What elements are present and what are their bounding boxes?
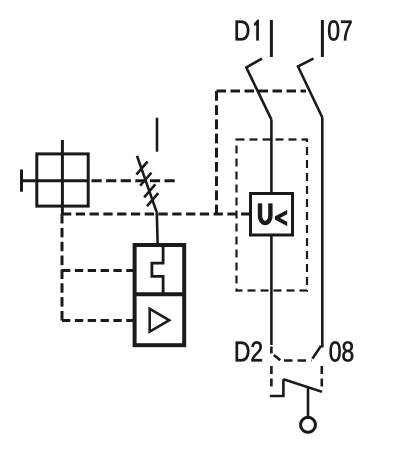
signalling terminal circle — [301, 417, 316, 432]
terminal label 07 — [328, 20, 351, 40]
wire pole D1 to U< box — [270, 120, 273, 195]
dashed enclosure around undervoltage release — [237, 140, 308, 291]
main contact pole 07 (breaker switch blade) — [298, 59, 322, 118]
terminal label D2 — [236, 341, 262, 361]
wire blade to signalling terminal — [307, 388, 310, 418]
overload step element — [152, 246, 163, 293]
terminal label D1 — [236, 20, 259, 40]
latch hatch tick 4 — [147, 193, 158, 206]
auxiliary changeover contact blade — [283, 379, 322, 392]
undervoltage release U1 box — [251, 194, 293, 236]
trip unit box (overload + amplifier) — [135, 245, 185, 345]
dashed linkage diagonal left — [274, 355, 281, 360]
wire latch to trip unit — [156, 213, 159, 247]
dashed linkage diagonal right — [312, 346, 321, 359]
dashed mechanical link left (below D2) — [270, 347, 273, 354]
latch lever stub — [156, 118, 159, 152]
latch hatch tick 1 — [136, 162, 147, 175]
trip linkage dashed: vertical drop — [215, 91, 218, 214]
trip unit divider — [135, 292, 185, 296]
terminal stub D1 — [270, 20, 273, 57]
wire pole 07 down to terminal 08 — [321, 118, 324, 348]
cross horizontal line — [22, 179, 89, 182]
dashed link to trip unit upper input — [62, 269, 135, 272]
terminal stub 07 — [321, 20, 324, 57]
chevron < of U< — [275, 210, 287, 226]
main contact pole D1 (breaker switch blade) — [246, 59, 271, 120]
handle T-bar — [20, 170, 23, 192]
wire U< box to terminal D2 — [270, 235, 273, 345]
latch hatch tick 2 — [140, 173, 151, 186]
amplifier triangle — [150, 309, 170, 332]
label U< — [260, 203, 270, 223]
cross vertical line — [61, 140, 64, 214]
dashed vertical from trip bar to trip unit — [61, 214, 64, 321]
latch hatch tick 3 — [144, 184, 155, 197]
terminal label 08 — [330, 341, 353, 361]
dashed link manual drive to latch — [92, 179, 175, 182]
dashed mechanical link right (below 08) — [320, 366, 323, 391]
auxiliary changeover contact fixed L — [270, 379, 284, 396]
trip linkage dashed: horizontal bar to both poles — [217, 90, 307, 93]
dashed link to trip unit lower input — [62, 319, 135, 322]
latch hatched diagonal — [137, 156, 157, 213]
dashed linkage horizontal — [284, 359, 312, 362]
manual drive symbol (square with cross) — [37, 154, 88, 206]
trip bar dashed: horizontal from manual drive to U< release — [62, 213, 251, 216]
